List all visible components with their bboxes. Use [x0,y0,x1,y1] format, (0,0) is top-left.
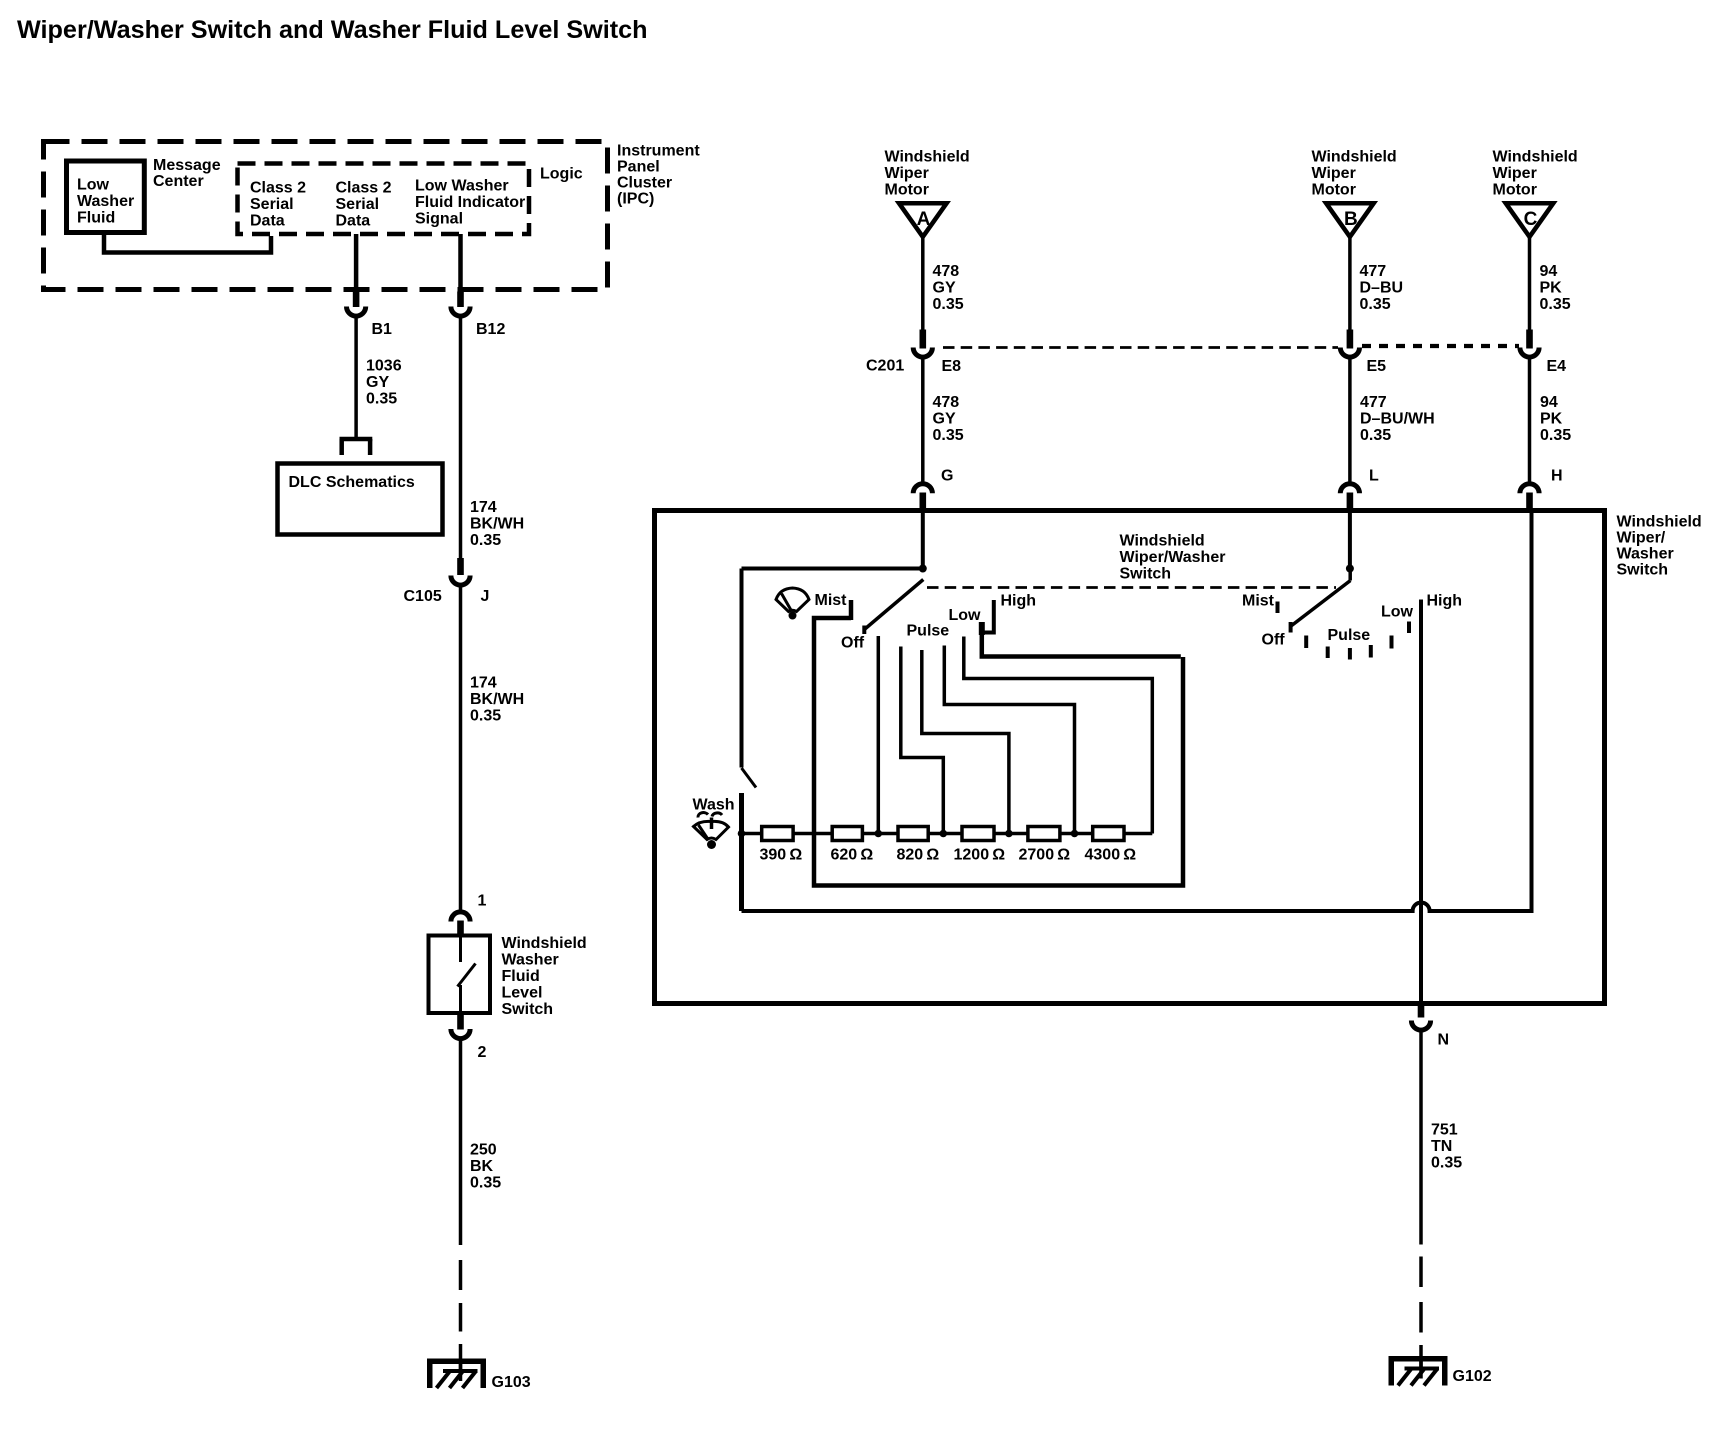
svg-text:Center: Center [153,173,204,190]
box label (right, outside) [1617,514,1702,579]
Message Center box [67,161,145,233]
svg-text:0.35: 0.35 [1431,1155,1462,1172]
Low Washer Fluid Indicator Signal label [415,178,525,228]
svg-text:1036: 1036 [366,358,402,375]
svg-text:Fluid: Fluid [502,968,540,985]
svg-text:GY: GY [933,411,956,428]
IPC label [617,143,700,208]
svg-text:C201: C201 [866,358,904,375]
svg-text:High: High [1001,593,1037,610]
wire 478 GY lower [921,358,925,482]
Message Center label [153,157,221,190]
wire 1036 GY [354,318,358,438]
wire B1 (Class 2 Serial Data down) [354,234,359,292]
connector C201 pin E5 [1340,330,1386,376]
svg-text:2700 Ω: 2700 Ω [1019,847,1071,864]
svg-text:Data: Data [336,213,371,230]
resistor 820 ohm [898,827,928,841]
svg-text:Mist: Mist [1242,593,1275,610]
svg-text:E5: E5 [1367,358,1387,375]
svg-text:Panel: Panel [617,159,660,176]
svg-text:BK/WH: BK/WH [470,516,524,533]
Mist-to-High loop wire [814,618,1183,886]
wire 94 PK upper [1528,237,1532,330]
svg-text:0.35: 0.35 [470,532,501,549]
svg-text:477: 477 [1360,394,1387,411]
svg-text:L: L [1369,468,1379,485]
svg-text:0.35: 0.35 [1540,427,1571,444]
connector C105 pin J [404,558,490,605]
svg-text:GY: GY [366,374,389,391]
svg-text:H: H [1551,468,1563,485]
svg-text:A: A [917,209,931,230]
resistor 2700 ohm [1028,827,1060,841]
inside heading [1120,533,1226,583]
resistor common feed down [739,834,744,912]
connector B12 [451,292,506,339]
connector H at switch box [1520,468,1563,512]
High label stub [983,600,994,633]
resistor value labels [760,847,1137,864]
svg-text:174: 174 [470,675,497,692]
wire Off contact to resistor tap 1 [877,636,881,834]
Windshield Wiper Motor A label [885,149,970,199]
wire pulse tap 4 [944,646,1074,834]
svg-text:4300 Ω: 4300 Ω [1085,847,1137,864]
svg-text:Washer: Washer [502,952,559,969]
svg-text:Windshield: Windshield [885,149,970,166]
svg-text:Cluster: Cluster [617,175,672,192]
connector G at switch box [913,468,953,512]
motor C triangle [1506,203,1554,237]
resistor 620 ohm [832,827,862,841]
svg-text:Windshield: Windshield [502,935,587,952]
svg-text:D–BU/WH: D–BU/WH [1360,411,1435,428]
svg-text:Fluid: Fluid [77,210,115,227]
label 478 GY 0.35 (upper) [933,263,964,313]
svg-text:Fluid Indicator: Fluid Indicator [415,194,525,211]
dashed link E8 to E5 [943,346,1338,349]
Class 2 Serial Data (right) [336,180,392,230]
junction A common [919,565,927,573]
wire 477 D-BU/WH lower [1348,358,1352,482]
svg-text:Wiper/: Wiper/ [1617,530,1666,547]
svg-text:Pulse: Pulse [907,623,950,640]
svg-text:Low: Low [949,607,982,624]
svg-text:0.35: 0.35 [366,391,397,408]
wiper icon (mist, switch A) [776,588,809,620]
High contact bar [979,622,985,635]
wire B12 (Low Washer Fluid Indicator Signal down) [458,234,463,292]
dashed wire to G102 [1419,1257,1423,1368]
High wire to loop [982,635,1181,657]
svg-text:Wiper/Washer: Wiper/Washer [1120,549,1226,566]
svg-text:DLC Schematics: DLC Schematics [289,474,415,491]
wire pulse tap 2 [901,647,944,834]
svg-text:Wash: Wash [693,797,735,814]
junction B common [1346,565,1354,573]
wire 478 GY upper [921,237,925,330]
High contact wire down to N [1419,600,1423,1004]
svg-text:820 Ω: 820 Ω [897,847,940,864]
svg-text:G103: G103 [492,1374,531,1391]
svg-text:Low Washer: Low Washer [415,178,509,195]
svg-text:Windshield: Windshield [1312,149,1397,166]
svg-text:BK: BK [470,1158,494,1175]
svg-text:Pulse: Pulse [1328,627,1371,644]
svg-text:G102: G102 [1453,1368,1492,1385]
Mist contact tick [849,600,854,620]
svg-text:Message: Message [153,157,221,174]
resistor 4300 ohm [1093,827,1124,841]
wire 250 BK [459,1040,463,1245]
svg-text:Windshield: Windshield [1493,149,1578,166]
svg-text:478: 478 [933,263,960,280]
wire G into box [921,511,925,569]
svg-text:PK: PK [1540,411,1563,428]
svg-text:477: 477 [1360,263,1387,280]
svg-text:E4: E4 [1547,358,1567,375]
Mist contact tick (B) [1276,602,1280,614]
svg-text:Switch: Switch [1120,566,1172,583]
connector C201 pin E8 [866,330,961,376]
svg-text:Windshield: Windshield [1120,533,1205,550]
svg-text:250: 250 [470,1142,497,1159]
thick dashed link E5 to E4 [1362,344,1519,348]
label 174 BK/WH 0.35 (upper) [470,499,524,549]
svg-text:0.35: 0.35 [1360,296,1391,313]
connector B1 [347,292,393,339]
label 250 BK 0.35 [470,1142,501,1192]
svg-text:Class 2: Class 2 [336,180,392,197]
Class 2 Serial Data (left) [250,180,306,230]
Pulse detent ticks (B) [1306,622,1409,660]
wire 174 BK/WH upper [459,318,463,559]
svg-text:Logic: Logic [540,166,583,183]
svg-text:1: 1 [478,893,487,910]
wire junction to wash feed [742,567,923,571]
resistor 390 ohm [762,827,793,841]
wire 751 TN [1419,1032,1423,1245]
off-page fork to DLC [340,439,373,455]
svg-text:94: 94 [1540,394,1558,411]
svg-text:Low: Low [1381,604,1414,621]
svg-text:C105: C105 [404,588,442,605]
svg-text:Wiper: Wiper [1493,165,1537,182]
svg-text:Off: Off [1262,632,1286,649]
label 1036 GY 0.35 [366,358,402,408]
svg-text:Class 2: Class 2 [250,180,306,197]
svg-text:G: G [941,468,953,485]
connector pin 1 of level switch [451,893,487,938]
IPC dashed box (Instrument Panel Cluster) [44,142,608,290]
connector pin 2 of level switch [451,1013,487,1061]
svg-text:620 Ω: 620 Ω [831,847,874,864]
svg-text:Washer: Washer [77,193,134,210]
resistor 1200 ohm [962,827,994,841]
Low Washer Fluid text [77,177,134,227]
wire Low contact to resistor row end [964,637,1153,834]
DLC Schematics box [278,464,443,535]
svg-text:Motor: Motor [885,182,929,199]
wire 174 BK/WH lower [459,587,463,912]
svg-text:C: C [1524,209,1538,230]
svg-text:B: B [1344,209,1358,230]
label 751 TN 0.35 [1431,1122,1462,1172]
wire Message Center to Logic box [104,234,271,253]
motor B triangle [1326,203,1374,237]
level switch contacts [458,937,476,1013]
svg-text:0.35: 0.35 [470,1175,501,1192]
svg-text:BK/WH: BK/WH [470,691,524,708]
svg-text:B1: B1 [372,321,393,338]
Windshield Wiper/Washer Switch box [655,511,1605,1004]
Windshield Wiper Motor B label [1312,149,1397,199]
dashed gang link to switch B [927,586,1336,589]
svg-text:Signal: Signal [415,211,463,228]
svg-text:2: 2 [478,1044,487,1061]
svg-text:Wiper: Wiper [885,165,929,182]
svg-text:0.35: 0.35 [1540,296,1571,313]
svg-text:Mist: Mist [815,592,848,609]
svg-text:J: J [481,588,490,605]
svg-text:N: N [1438,1032,1450,1049]
svg-text:Instrument: Instrument [617,143,700,160]
svg-text:478: 478 [933,394,960,411]
wash contact bar [739,793,744,834]
Windshield Wiper Motor C label [1493,149,1578,199]
svg-text:GY: GY [933,280,956,297]
ground G103 [427,1359,531,1392]
wash switch blade [742,768,757,788]
ground G102 [1389,1356,1492,1386]
connector L at switch box [1340,468,1379,512]
junction dots on resistor row [738,830,1079,838]
Windshield Washer Fluid Level Switch box [429,936,491,1014]
wire L into box [1348,511,1352,569]
connector C201 pin E4 [1520,330,1566,376]
Windshield Washer Fluid Level Switch label [502,935,587,1018]
label 477 D-BU/WH 0.35 [1360,394,1435,444]
connector N below box [1411,1004,1449,1049]
svg-text:TN: TN [1431,1138,1452,1155]
label 477 D-BU 0.35 [1360,263,1404,313]
svg-text:Motor: Motor [1493,182,1537,199]
svg-text:0.35: 0.35 [470,708,501,725]
svg-text:E8: E8 [942,358,962,375]
svg-text:Washer: Washer [1617,546,1674,563]
svg-text:1200 Ω: 1200 Ω [954,847,1006,864]
svg-text:Off: Off [841,635,865,652]
svg-text:Serial: Serial [250,196,294,213]
wash feed wire [740,569,744,768]
svg-text:Data: Data [250,213,285,230]
label 94 PK 0.35 (lower) [1540,394,1571,444]
svg-text:Serial: Serial [336,196,380,213]
svg-text:Switch: Switch [502,1001,554,1018]
svg-text:Wiper/Washer Switch and Washer: Wiper/Washer Switch and Washer Fluid Lev… [17,16,648,44]
svg-text:Windshield: Windshield [1617,514,1702,531]
washer spray icon [694,813,729,849]
svg-text:94: 94 [1540,263,1558,280]
svg-text:Low: Low [77,177,110,194]
svg-text:D–BU: D–BU [1360,280,1404,297]
svg-text:High: High [1427,593,1463,610]
svg-text:PK: PK [1540,280,1563,297]
svg-text:Motor: Motor [1312,182,1356,199]
wire 477 D-BU upper [1348,237,1352,330]
motor A triangle [899,203,947,237]
dashed wire to G103 [459,1260,463,1370]
resistor row wire [742,832,1153,836]
label 174 BK/WH 0.35 (lower) [470,675,524,725]
svg-text:0.35: 0.35 [1360,427,1391,444]
wire pulse tap 3 [922,650,1009,834]
svg-text:Switch: Switch [1617,562,1669,579]
output wire to H (with hop over N wire) [742,511,1532,911]
switch A blade [864,580,923,635]
Logic dashed box [238,164,530,235]
label 94 PK 0.35 [1540,263,1571,313]
switch B blade [1291,569,1351,633]
svg-text:B12: B12 [476,321,505,338]
svg-text:174: 174 [470,499,497,516]
svg-text:0.35: 0.35 [933,427,964,444]
label 478 GY 0.35 (lower) [933,394,964,444]
svg-text:751: 751 [1431,1122,1458,1139]
svg-text:Wiper: Wiper [1312,165,1356,182]
svg-text:390 Ω: 390 Ω [760,847,803,864]
wire 94 PK lower [1528,358,1532,482]
svg-text:(IPC): (IPC) [617,191,654,208]
svg-text:Level: Level [502,985,543,1002]
svg-text:0.35: 0.35 [933,296,964,313]
